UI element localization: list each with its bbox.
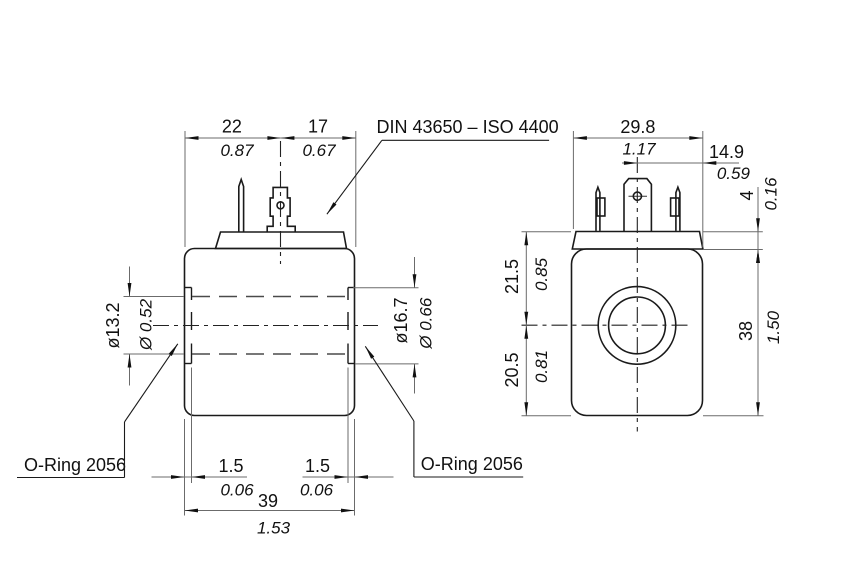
dimension dia 16.7 / 0.66 [353, 257, 435, 394]
svg-text:21.5: 21.5 [502, 259, 522, 294]
centerline horizontal front view [522, 324, 692, 326]
dimension 38 / 1.50 [703, 250, 783, 416]
label O-Ring 2056 right with leader [365, 346, 523, 477]
coil body front view [572, 249, 703, 416]
hidden bore line top [192, 296, 348, 298]
label DIN 43650 - ISO 4400 with leader [327, 117, 559, 214]
center terminal side view [267, 187, 295, 231]
o-ring groove notch left [185, 288, 192, 364]
dimension 20.5 / 0.81 [502, 325, 571, 416]
svg-text:1.17: 1.17 [622, 139, 656, 158]
svg-text:ø13.2: ø13.2 [103, 302, 123, 348]
o-ring groove notch right [348, 288, 355, 364]
dimension 29.8 / 1.17 [573, 117, 702, 248]
svg-text:0.06: 0.06 [300, 480, 334, 499]
svg-text:29.8: 29.8 [620, 117, 655, 137]
ground pin side view [239, 180, 244, 233]
right small pin front view [671, 187, 680, 231]
bore circle outer [598, 287, 676, 365]
svg-text:0.59: 0.59 [717, 164, 751, 183]
svg-text:0.81: 0.81 [532, 350, 551, 383]
svg-text:0.06: 0.06 [220, 480, 254, 499]
dimension 39 / 1.53 [185, 491, 355, 538]
svg-text:14.9: 14.9 [709, 142, 744, 162]
svg-text:22: 22 [222, 117, 242, 137]
svg-text:ø16.7: ø16.7 [391, 297, 411, 343]
left small pin front view [596, 187, 605, 231]
center spade pin front view [624, 179, 651, 232]
svg-text:O-Ring 2056: O-Ring 2056 [421, 454, 523, 474]
connector cap front view [572, 232, 703, 250]
bore circle inner [609, 297, 666, 354]
svg-text:Ø 0.52: Ø 0.52 [136, 298, 155, 351]
svg-text:0.85: 0.85 [532, 257, 551, 291]
dimension 4 / 0.16 [703, 177, 781, 263]
dimension 21.5 / 0.85 [502, 232, 571, 416]
svg-text:1.5: 1.5 [218, 456, 243, 476]
dimension dia 13.2 / 0.52 [103, 267, 184, 386]
centerline vertical left view [280, 141, 282, 264]
label O-Ring 2056 left with leader [17, 344, 178, 478]
svg-text:39: 39 [258, 491, 278, 511]
svg-text:0.87: 0.87 [220, 141, 254, 160]
svg-text:4: 4 [737, 190, 757, 200]
svg-text:0.16: 0.16 [762, 177, 781, 211]
dimension 17 / 0.67 [281, 117, 356, 247]
svg-text:20.5: 20.5 [502, 352, 522, 387]
dimension 1.5 / 0.06 right [300, 368, 368, 516]
connector cap trapezoid side view [216, 232, 347, 249]
svg-text:O-Ring 2056: O-Ring 2056 [24, 455, 126, 475]
centerline vertical front view [636, 157, 638, 432]
hidden bore line bottom [192, 353, 348, 355]
coil body side view [185, 249, 355, 416]
dimension 14.9 / 0.59 [622, 142, 750, 183]
svg-text:1.53: 1.53 [257, 518, 291, 537]
svg-text:1.50: 1.50 [764, 310, 783, 344]
svg-text:38: 38 [736, 321, 756, 341]
dimension 1.5 / 0.06 left [152, 368, 394, 516]
svg-text:1.5: 1.5 [305, 456, 330, 476]
svg-text:0.67: 0.67 [302, 141, 336, 160]
svg-text:17: 17 [308, 117, 328, 137]
dimension 22 / 0.87 [185, 117, 281, 247]
svg-text:DIN 43650 – ISO 4400: DIN 43650 – ISO 4400 [377, 117, 559, 137]
centerline axis left view [153, 325, 378, 327]
svg-text:Ø 0.66: Ø 0.66 [416, 297, 435, 350]
